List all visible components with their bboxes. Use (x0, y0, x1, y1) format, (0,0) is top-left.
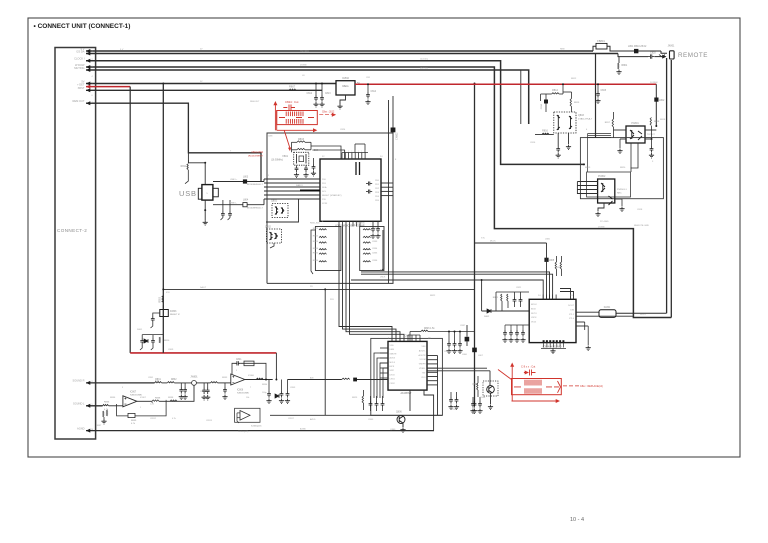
wire from USB top to right (222, 182, 224, 201)
wire IC805 vss down to rail (424, 390, 434, 431)
wire red 5V output of U802 (355, 83, 656, 85)
feedback cap C841 (232, 363, 235, 374)
svg-text:USB D+: USB D+ (230, 179, 238, 181)
svg-text:LRCK: LRCK (531, 317, 537, 319)
svg-text:C846: C846 (480, 397, 486, 399)
wire top of Q803 to red rail (562, 84, 564, 94)
svg-text:SDTI: SDTI (390, 370, 395, 372)
wire from center vertical to IC804 (475, 242, 547, 244)
mid cluster lower caps (142, 334, 163, 336)
svg-text:LRCK: LRCK (380, 276, 386, 278)
wires into IC804 top right from opto area (560, 289, 571, 300)
svg-text:BK1608HS600-T: BK1608HS600-T (247, 208, 263, 210)
svg-text:ACKS: ACKS (390, 357, 396, 360)
wire on box right edge down (388, 100, 390, 283)
resistor R823 (477, 383, 478, 390)
svg-text:CN8: CN8 (268, 136, 273, 138)
svg-text:CKO: CKO (421, 377, 426, 379)
svg-text:C801,C802: C801,C802 (251, 152, 263, 154)
svg-text:Q803: Q803 (578, 114, 585, 117)
svg-text:C852: C852 (200, 391, 206, 393)
red group2 up arrow (511, 366, 513, 401)
resistor R825 vertical (362, 396, 363, 403)
svg-text:IC806(2/2): IC806(2/2) (251, 426, 262, 428)
svg-text:C832: C832 (372, 236, 378, 238)
unused op-amp IC806c box (235, 408, 260, 422)
svg-text:Q801: Q801 (271, 200, 278, 203)
svg-text:5V-REM: 5V-REM (650, 82, 658, 84)
svg-text:BK1608HS600-T: BK1608HS600-T (247, 184, 263, 186)
resistor array RA802 (360, 227, 384, 271)
svg-text:L801 FB10.25.02: L801 FB10.25.02 (628, 45, 647, 48)
svg-text:C824: C824 (340, 129, 346, 131)
svg-text:C8317: C8317 (288, 418, 295, 420)
svg-text:LRCK: LRCK (390, 374, 396, 376)
svg-text:CONNECT-2: CONNECT-2 (57, 228, 87, 233)
op-amp IC806a (231, 374, 245, 385)
second stage resistors (151, 402, 153, 403)
left bus step box below (266, 199, 299, 222)
U801 left pin rows (264, 178, 320, 180)
svg-text:R811: R811 (181, 166, 187, 168)
IC803 reset box (160, 310, 169, 317)
resistor R836 (103, 404, 109, 405)
svg-text:MCLK: MCLK (390, 362, 396, 364)
wire R814 loop (540, 94, 542, 101)
capacitors under IC804 left (504, 325, 506, 330)
svg-text:REMOTE-GND: REMOTE-GND (634, 225, 649, 227)
IC805 left pin stubs (380, 347, 388, 349)
svg-text:VDD: VDD (390, 345, 395, 347)
resistor R815 vertical (570, 99, 571, 107)
svg-text:R814: R814 (552, 89, 558, 92)
svg-text:R817: R817 (605, 122, 611, 124)
svg-text:CLOCK-I: CLOCK-I (420, 59, 429, 61)
wire output to DAC input (288, 379, 342, 381)
resistor R833 (211, 382, 218, 383)
wires PC802 bottom (598, 203, 604, 211)
wire D+ to array (263, 179, 265, 182)
resistor R811 vertical (187, 160, 189, 163)
capacitor C813 (321, 84, 323, 96)
svg-text:R815: R815 (574, 102, 580, 104)
wire SOUND L input (86, 405, 103, 407)
red group2 hatch b (524, 388, 526, 394)
vertical wires under PC801 (630, 143, 632, 172)
resistor cluster left of IC804 (501, 294, 502, 301)
resistor R832 (167, 382, 174, 383)
svg-text:RESET (STANDBY): RESET (STANDBY) (322, 194, 342, 197)
wire vertical branch to audio rail (324, 289, 326, 415)
wires PC801 right pins (645, 129, 656, 131)
wire crystal to IC clock pins (291, 142, 293, 152)
wire bus 5V supply to U802 (86, 83, 336, 85)
red group2 right arrow head (558, 381, 561, 393)
resistor R807 on XRST (289, 89, 296, 90)
svg-text:REM-OUT: REM-OUT (250, 101, 260, 103)
svg-text:C815: C815 (601, 90, 607, 92)
svg-text:R810: R810 (164, 340, 170, 342)
svg-text:R839: R839 (131, 420, 137, 422)
connector CN801 USB jack (202, 185, 213, 201)
svg-text:DTA114YKA-T: DTA114YKA-T (578, 117, 593, 120)
wire bus CLOCK (86, 61, 584, 165)
wires Q802 hookup (270, 243, 274, 248)
svg-text:AOUTR: AOUTR (419, 354, 427, 357)
pin stubs and labels on CONNECT-2 (90, 50, 96, 52)
wire PC802 right to vertical (615, 198, 622, 200)
svg-text:5 V: 5 V (120, 49, 124, 51)
svg-text:JK801: JK801 (668, 45, 675, 48)
resistor R835 into IC805 (342, 378, 350, 379)
wire REM OUT (86, 103, 261, 181)
wire bus DOWN (86, 67, 671, 318)
svg-text:RA801: RA801 (296, 184, 303, 187)
wire D- to array (263, 199, 265, 205)
svg-text:NEC: NEC (617, 192, 622, 194)
svg-text:• CONNECT UNIT (CONNECT-1): • CONNECT UNIT (CONNECT-1) (34, 23, 131, 30)
svg-text:AVDD: AVDD (310, 418, 316, 421)
caps mid audio (180, 383, 182, 387)
wire Q803 emitter down (557, 133, 559, 146)
capacitor under op2 input (224, 383, 226, 387)
svg-text:R843: R843 (313, 241, 319, 243)
resistor R803 (297, 141, 305, 142)
diode D801 (141, 336, 144, 338)
svg-text:IC807: IC807 (130, 391, 137, 393)
wire vertical into IC804 (546, 243, 548, 299)
svg-text:C837: C837 (460, 325, 466, 327)
IC U802 regulator 5V (336, 81, 355, 95)
svg-text:R816: R816 (542, 130, 548, 133)
arrow into remote jack (654, 56, 663, 58)
svg-text:R804: R804 (312, 149, 319, 152)
wire red DET vertical (129, 87, 131, 353)
svg-text:Q806: Q806 (396, 412, 402, 414)
red diagonal pointer group2 (498, 370, 512, 380)
wire bus MUTING (86, 70, 529, 124)
U801 bottom pins going down to arrays (338, 221, 340, 226)
connector stub on box right edge (392, 96, 394, 133)
feedback loop opamp2 (117, 404, 128, 416)
svg-text:C836: C836 (372, 260, 378, 262)
wire corners at bottom of right verticals (616, 312, 667, 314)
svg-text:(16.93MHz): (16.93MHz) (271, 160, 283, 162)
svg-text:IC801 M38C89FF-225-HP: IC801 M38C89FF-225-HP (335, 225, 365, 228)
wire clock into box (583, 163, 585, 165)
resistor R809 vertical (162, 296, 163, 303)
svg-text:REMOTE: REMOTE (678, 52, 708, 59)
resistor R814 (552, 93, 559, 94)
box around audio DAC section (371, 338, 443, 415)
svg-text:MUTING: MUTING (420, 68, 428, 70)
bead L802 on vertical (654, 98, 658, 102)
wire remote lower (618, 54, 648, 57)
resistor R804 (297, 148, 305, 149)
svg-text:X801: X801 (282, 155, 288, 158)
wires into PC802 left (577, 181, 597, 183)
svg-text:MUTING: MUTING (74, 66, 84, 70)
svg-text:R803: R803 (298, 138, 305, 141)
IC805 left bundle down to caps (374, 353, 388, 398)
svg-text:(R)LACEMENT: (R)LACEMENT (248, 155, 264, 158)
wire long vertical from 5V to mid cluster (162, 84, 164, 353)
svg-text:R812: R812 (571, 78, 577, 80)
svg-text:C838: C838 (444, 351, 450, 353)
red group2 dashes (514, 386, 559, 388)
mid resistor block (151, 401, 153, 403)
svg-text:Q802: Q802 (265, 226, 272, 229)
svg-text:SMUTE: SMUTE (390, 353, 398, 355)
svg-text:IC802: IC802 (342, 76, 349, 80)
svg-text:FB801: FB801 (597, 39, 605, 43)
svg-text:L803: L803 (243, 176, 249, 178)
resistor R840 (170, 400, 177, 401)
bead black on audio in (353, 378, 357, 382)
wire bus I2S (86, 53, 618, 55)
vertical connecting stage2 (190, 383, 192, 401)
svg-text:R838: R838 (168, 397, 174, 399)
svg-text:REM OUT: REM OUT (73, 99, 85, 103)
caps at opamp output (268, 380, 270, 392)
svg-text:R846: R846 (313, 260, 319, 262)
svg-text:AIN: AIN (310, 376, 314, 379)
wire R816 into Q803 (535, 133, 554, 135)
svg-text:PC802: PC802 (598, 175, 606, 178)
box opto section inner (587, 172, 631, 197)
wire upper into jack (661, 51, 667, 53)
wire long data line (163, 288, 474, 290)
IC805 top pin stubs (407, 335, 409, 341)
crystal X801 dashed box (294, 152, 309, 165)
svg-text:DOWN: DOWN (598, 226, 605, 228)
resistor array RA801 (315, 227, 341, 271)
svg-text:MCLK: MCLK (531, 304, 537, 306)
opto box inner wires (588, 133, 611, 135)
wires around Q805 (489, 371, 491, 386)
svg-text:RESET IC: RESET IC (170, 314, 180, 316)
svg-text:C 8 x x : Cut: C 8 x x : Cut (521, 365, 536, 369)
IC U801 microcontroller box (320, 159, 381, 221)
svg-text:C831: C831 (372, 228, 378, 230)
svg-text:XRST: XRST (78, 86, 85, 90)
IC804 top pin stubs (542, 295, 544, 300)
svg-text:I2S-DATA: I2S-DATA (300, 50, 309, 53)
svg-text:C816: C816 (541, 103, 543, 109)
svg-text:IC806: IC806 (248, 375, 255, 377)
svg-text:DIN: DIN (570, 309, 574, 311)
svg-text:DOWN: DOWN (300, 65, 307, 67)
svg-text:BICK: BICK (390, 366, 395, 368)
op-amp2 output (137, 400, 152, 402)
svg-text:R841-846: R841-846 (310, 223, 320, 225)
optocoupler PC801 (626, 126, 645, 143)
bead L804 on D- (243, 203, 247, 207)
IC804 bottom rail (541, 347, 566, 349)
op-amp output wire (245, 379, 273, 381)
analog ground rail (86, 430, 434, 432)
svg-text:C8313: C8313 (206, 420, 213, 422)
resistor R826 top (421, 330, 428, 331)
red diagonal pointer to crystal (284, 130, 290, 148)
bead L801 on remote line (634, 49, 638, 53)
U801 top pin stubs (341, 153, 343, 160)
caps top right of IC805 (448, 332, 450, 342)
svg-text:USB D-: USB D- (230, 202, 237, 204)
svg-text:IC807: IC807 (140, 397, 147, 399)
resistor R801 to ground on remote (618, 57, 620, 63)
capacitors under IC804 (547, 355, 549, 360)
svg-text:R826 1.5k: R826 1.5k (424, 328, 435, 330)
audio section bottom rail (270, 414, 442, 416)
capacitor C802 under crystal (304, 166, 308, 173)
wire top rail of cluster (496, 291, 529, 293)
svg-text:C821: C821 (516, 287, 522, 289)
svg-text:D801: D801 (137, 329, 143, 331)
long verticals from U801 to audio IC with elbows (339, 227, 392, 342)
wire Q803 collector down (568, 133, 570, 144)
ground resistor under opamp2 (103, 411, 104, 417)
resistor R831 (155, 382, 162, 383)
svg-text:I2S DA: I2S DA (76, 49, 84, 53)
wire IC805 bottom to transistor (409, 390, 411, 411)
resistor R838 (152, 400, 159, 401)
svg-text:PC801: PC801 (631, 122, 639, 125)
svg-text:R818: R818 (660, 119, 666, 121)
red hatched block 1b (285, 119, 287, 124)
svg-text:IC803: IC803 (170, 310, 177, 313)
wire cap rail IC804 (505, 324, 529, 326)
wire USB vcc from vertical (188, 103, 205, 163)
svg-text:BICK: BICK (380, 270, 385, 272)
svg-text:L802: L802 (659, 99, 665, 102)
capacitor C814 on U802 output (367, 84, 369, 92)
wire U802 gnd pin (340, 95, 346, 104)
bead L806 on center vertical (465, 337, 470, 342)
svg-text:CKS2: CKS2 (390, 383, 396, 385)
wire red net to opamp node (275, 353, 277, 380)
cap C840 bottom of long vertical (473, 401, 477, 408)
svg-text:R819: R819 (585, 167, 591, 169)
svg-text:DA-DT: DA-DT (200, 286, 207, 289)
svg-text:C843: C843 (368, 419, 374, 421)
svg-text:Q806: Q806 (390, 429, 396, 431)
svg-text:USB: USB (179, 189, 197, 198)
wire bus 5V (86, 50, 593, 52)
IC IC804 bottom right (529, 299, 576, 342)
svg-text:VREFH: VREFH (419, 364, 426, 366)
caps after jumper (203, 383, 205, 388)
feedback resistor box (244, 361, 254, 366)
svg-text:R836: R836 (110, 397, 116, 399)
transistor Q801 dashed cluster (272, 204, 288, 218)
bead L803 on D+ (243, 179, 247, 183)
resistor R810 vertical (159, 337, 160, 343)
wires PC801 left pins (614, 129, 627, 131)
svg-text:R825: R825 (352, 397, 358, 399)
caps under IC805 left (370, 396, 372, 401)
red dashed arrow right group1 (319, 114, 334, 116)
svg-text:C816: C816 (530, 142, 536, 144)
svg-text:R822: R822 (430, 295, 436, 297)
red group2 hatch a (524, 380, 526, 386)
box opto section outer (580, 138, 663, 199)
wire right edge verticals from remote down (666, 58, 668, 313)
box around microcontroller section (267, 133, 393, 283)
wire vertical from red output corner (655, 84, 657, 126)
wire XRST (86, 89, 322, 91)
svg-text:L806: L806 (462, 354, 468, 356)
wire pair from arrays to IC804 (361, 272, 550, 299)
IC804 right pins to filter (576, 311, 599, 313)
svg-text:R820: R820 (620, 167, 626, 169)
svg-text:CLOCK I: CLOCK I (74, 57, 85, 61)
svg-text:10k: 10k (246, 397, 249, 399)
bead L807 on long vertical (472, 348, 477, 353)
svg-text:R836: R836 (104, 402, 110, 404)
wire third from array (351, 280, 543, 299)
svg-text:C835: C835 (372, 252, 378, 254)
dashed box around Q805 (483, 381, 498, 396)
svg-text:C818: C818 (637, 209, 643, 211)
red note arrow up (274, 105, 276, 131)
capacitor C806 USB (222, 200, 224, 211)
connector CN block CONNECT-2 (55, 48, 96, 440)
svg-text:R834: R834 (262, 384, 268, 386)
bead L805 (544, 258, 548, 262)
svg-text:R842: R842 (313, 236, 319, 238)
page border frame (28, 18, 740, 457)
svg-text:SOUND R: SOUND R (73, 379, 85, 383)
wire vertical w2 branch to opto box (595, 54, 597, 138)
svg-text:REM: REM (560, 49, 565, 51)
transistor Q802 dashed cluster (267, 229, 282, 243)
svg-text:D802: D802 (484, 316, 490, 318)
capacitor C803 (313, 158, 315, 164)
array right rail (382, 230, 384, 270)
capacitors left of IC804 (514, 292, 516, 297)
red group1 bottom line with arrow (277, 129, 314, 131)
wire USB D- line (213, 204, 264, 206)
svg-text:VCOM: VCOM (420, 359, 426, 361)
red group2 capacitor (524, 370, 536, 376)
svg-text:C812: C812 (307, 93, 313, 95)
svg-text:R845: R845 (313, 252, 319, 254)
svg-text:L805: L805 (545, 239, 551, 241)
svg-text:DOUT: DOUT (568, 305, 575, 307)
svg-text:SOUND L: SOUND L (73, 402, 85, 406)
svg-text:C8312: C8312 (150, 418, 157, 420)
svg-text:C824 : Cut: C824 : Cut (285, 100, 299, 104)
svg-text:+ DET: + DET (77, 82, 85, 86)
svg-text:C8xx : REPLACE(x2): C8xx : REPLACE(x2) (580, 385, 603, 388)
svg-text:R837: R837 (96, 425, 102, 427)
svg-text:C851: C851 (148, 377, 154, 379)
svg-text:DOUT: DOUT (640, 314, 646, 316)
svg-text:VD15: VD15 (531, 322, 537, 324)
svg-text:R838: R838 (155, 398, 161, 400)
svg-text:REG: REG (342, 84, 348, 88)
wire SOUND R input (86, 382, 155, 384)
connector JK801 REMOTE jack (670, 51, 675, 59)
caps under cluster (472, 397, 474, 401)
svg-text:L807: L807 (478, 355, 484, 357)
jumper circle JW (192, 381, 197, 386)
svg-text:R818: R818 (654, 121, 660, 123)
IC IC805 audio DAC (388, 341, 427, 390)
resistors above IC804 right (555, 262, 556, 269)
red component box group1 (277, 111, 318, 125)
